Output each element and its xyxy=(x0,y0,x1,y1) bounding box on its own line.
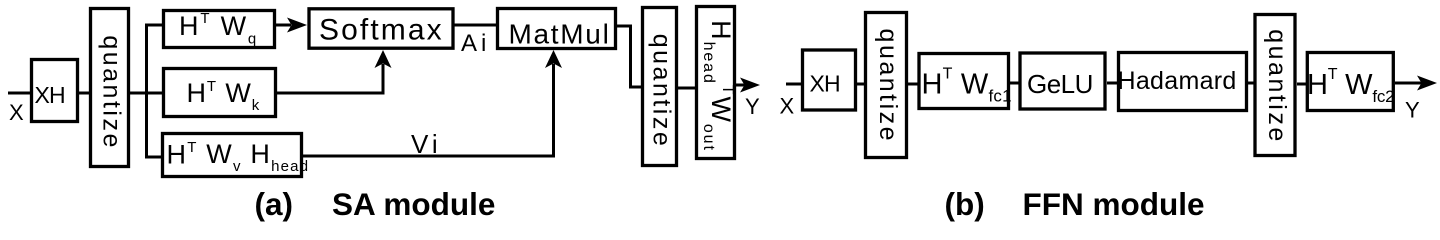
wire GeLU to Hadamard xyxy=(1107,82,1118,85)
wire quantize Q3 to HTWfc1 xyxy=(908,83,919,86)
box Softmax xyxy=(309,9,453,48)
svg-text:XH: XH xyxy=(810,71,840,97)
svg-text:quantize: quantize xyxy=(97,35,125,150)
wire branch vertical xyxy=(145,24,148,159)
svg-text:GeLU: GeLU xyxy=(1027,69,1093,99)
wire X to XH (FFN) xyxy=(786,83,803,86)
wire HTWfc1 to GeLU xyxy=(1010,82,1020,85)
svg-text:quantize: quantize xyxy=(647,34,675,149)
wire quantize to branch xyxy=(130,92,148,95)
box quantize Q4 (FFN output) xyxy=(1255,15,1295,156)
box MatMul xyxy=(498,9,616,50)
svg-text:MatMul: MatMul xyxy=(509,19,611,50)
box quantize Q2 (SA output) xyxy=(643,8,677,166)
svg-text:quantize: quantize xyxy=(1263,29,1291,144)
box HT Wfc1 xyxy=(919,54,1012,109)
svg-text:Y: Y xyxy=(1405,98,1420,123)
wire arrow HTWq to Softmax xyxy=(276,24,291,27)
svg-text:X: X xyxy=(9,100,24,125)
svg-text:Vi: Vi xyxy=(411,129,442,159)
wire Hadamard to quantize Q4 xyxy=(1248,82,1255,85)
box HT Wk xyxy=(164,69,276,117)
svg-text:FFN module: FFN module xyxy=(1023,186,1205,222)
box Hhead T Wout xyxy=(697,7,737,159)
svg-text:SA module: SA module xyxy=(332,186,495,222)
svg-text:X: X xyxy=(780,94,795,119)
box Hadamard xyxy=(1118,53,1247,111)
svg-text:Y: Y xyxy=(745,94,760,119)
box HT Wv Hhead xyxy=(163,134,310,177)
wire Vi from HTWv to MatMul bottom xyxy=(303,155,555,158)
svg-text:Softmax: Softmax xyxy=(319,14,444,47)
wire arrow Wout to Y xyxy=(736,84,745,87)
wire quantize Q2 to Wout xyxy=(678,87,696,90)
wire X to XH xyxy=(8,92,32,95)
wire HTWk right then up into Softmax bottom xyxy=(277,92,385,95)
box XH (SA) xyxy=(32,60,78,122)
wire XH to quantize Q3 xyxy=(857,83,866,86)
wire branch to HTWq xyxy=(145,24,163,27)
arrowhead into MatMul bottom xyxy=(545,50,562,68)
svg-text:quantize: quantize xyxy=(874,29,902,144)
box HT Wfc2 xyxy=(1307,53,1394,111)
svg-text:XH: XH xyxy=(35,82,65,108)
wire branch to HTWv xyxy=(145,156,162,159)
box GeLU xyxy=(1020,53,1105,109)
svg-text:Ai: Ai xyxy=(461,30,490,57)
svg-text:Hadamard: Hadamard xyxy=(1118,67,1237,95)
wire quantize Q4 to HTWfc2 xyxy=(1297,83,1307,86)
box XH (FFN) xyxy=(803,50,856,110)
arrowhead into Softmax bottom xyxy=(375,50,392,68)
box quantize Q3 (FFN input) xyxy=(866,13,907,158)
box quantize Q1 (SA input) xyxy=(91,9,129,167)
svg-text:(a): (a) xyxy=(255,186,294,222)
wire MatMul to quantize Q2 xyxy=(615,25,632,28)
box HT Wq xyxy=(164,10,275,48)
svg-text:(b): (b) xyxy=(945,186,985,222)
wire arrow HTWfc2 to Y xyxy=(1395,82,1422,85)
wire XH to quantize xyxy=(79,92,91,95)
wire Softmax to MatMul xyxy=(455,24,497,27)
wire branch to HTWk xyxy=(145,92,163,95)
